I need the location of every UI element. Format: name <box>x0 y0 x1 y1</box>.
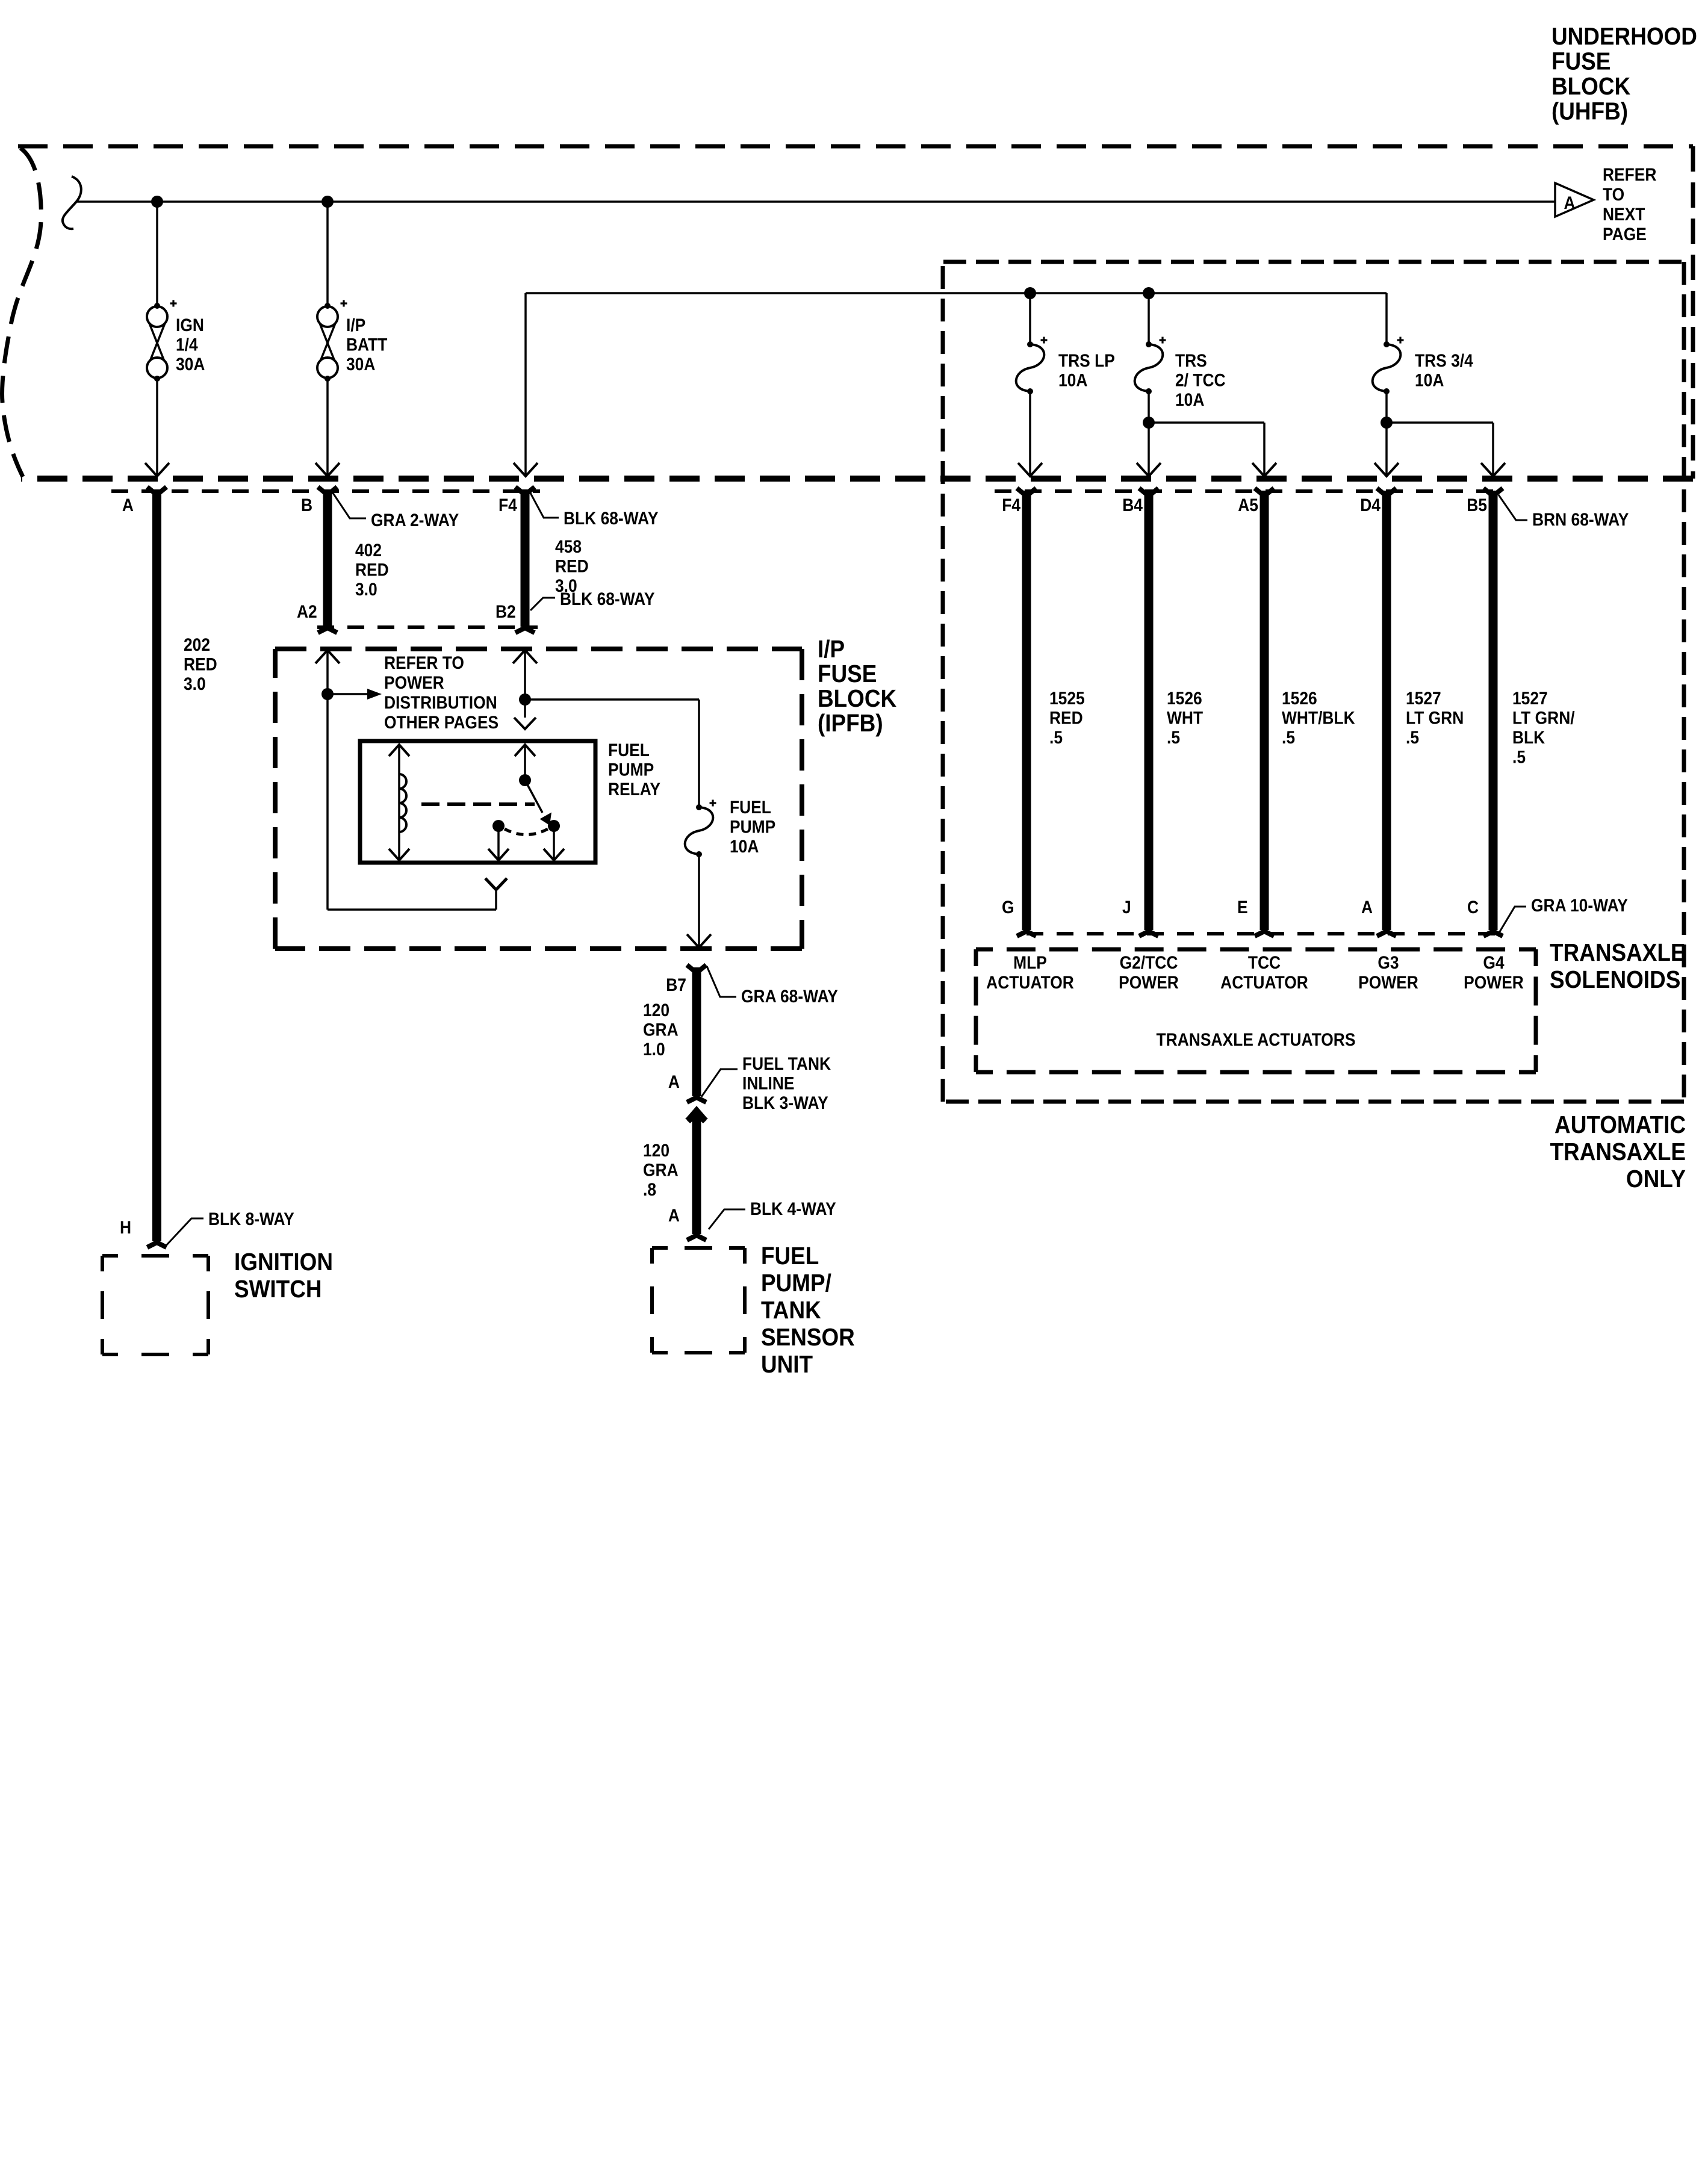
connector strip transaxle F4 B4 A5 D4 B5 <box>995 489 1500 493</box>
wire 1526 WHT .5 <box>1145 491 1154 930</box>
connector pin D4 transaxle <box>1377 488 1396 496</box>
svg-text:FUEL TANK: FUEL TANK <box>742 1053 831 1073</box>
wire 458 RED 3.0 (F4 to B2) <box>521 489 530 627</box>
svg-text:A: A <box>122 494 134 515</box>
svg-text:F4: F4 <box>499 494 517 515</box>
svg-text:.5: .5 <box>1406 727 1419 747</box>
svg-text:ACTUATOR: ACTUATOR <box>986 972 1074 992</box>
svg-text:BRN 68-WAY: BRN 68-WAY <box>1532 509 1629 529</box>
svg-text:I/P: I/P <box>818 636 845 663</box>
svg-text:RELAY: RELAY <box>608 778 660 799</box>
wire B+ bus <box>76 200 1555 203</box>
svg-text:FUSE: FUSE <box>1551 48 1610 75</box>
svg-text:BLK 4-WAY: BLK 4-WAY <box>750 1198 836 1218</box>
relay output chevron <box>485 878 507 890</box>
svg-text:DISTRIBUTION: DISTRIBUTION <box>384 692 497 712</box>
svg-text:BLK 3-WAY: BLK 3-WAY <box>742 1092 828 1112</box>
svg-text:2/ TCC: 2/ TCC <box>1175 370 1226 390</box>
I/P fuse block IPFB dashed box <box>275 647 802 651</box>
wire net 458 drop to fuse TRS 3/4 <box>1385 293 1388 343</box>
svg-text:C: C <box>1467 896 1479 917</box>
transaxle actuators dashed box <box>976 948 993 952</box>
svg-text:1526: 1526 <box>1282 687 1317 708</box>
svg-text:TRS: TRS <box>1175 350 1207 370</box>
relay coil <box>399 774 406 832</box>
svg-text:B5: B5 <box>1467 494 1487 515</box>
connector pin B5 transaxle <box>1483 488 1503 496</box>
relay contact dot NO <box>548 820 560 832</box>
svg-text:SENSOR: SENSOR <box>761 1324 855 1351</box>
svg-text:G: G <box>1002 896 1014 917</box>
svg-text:G3: G3 <box>1378 952 1399 972</box>
svg-text:B7: B7 <box>666 974 686 994</box>
svg-text:FUEL: FUEL <box>608 739 650 760</box>
svg-text:POWER: POWER <box>384 672 444 692</box>
connector pin B2 <box>515 628 535 633</box>
svg-text:FUEL: FUEL <box>761 1242 819 1270</box>
svg-text:GRA: GRA <box>643 1019 679 1040</box>
svg-text:.5: .5 <box>1167 727 1180 747</box>
svg-text:458: 458 <box>555 536 582 556</box>
wire bus to fuse I/P BATT <box>326 202 329 305</box>
fuel pump tank sensor unit dashed box <box>652 1246 668 1250</box>
wire bus to fuse IGN <box>156 202 158 305</box>
svg-text:A: A <box>1564 192 1575 213</box>
ignition switch dashed box <box>102 1254 118 1258</box>
svg-text:GRA 2-WAY: GRA 2-WAY <box>371 509 459 530</box>
connector pin A <box>148 487 167 495</box>
svg-text:OTHER PAGES: OTHER PAGES <box>384 712 499 732</box>
fuse I/P BATT 30A <box>325 303 331 309</box>
svg-text:INLINE: INLINE <box>742 1073 795 1093</box>
leader FUEL TANK INLINE BLK 3-WAY <box>701 1069 738 1097</box>
wire fuse I/P BATT to pin B <box>326 380 329 475</box>
underhood fuse block UHFB top border <box>18 144 1693 149</box>
connector pin B4 transaxle <box>1139 488 1158 496</box>
svg-text:POWER: POWER <box>1358 972 1418 992</box>
off-page connector arrow A <box>1555 183 1594 217</box>
svg-text:UNIT: UNIT <box>761 1351 813 1378</box>
wire fuse TRS LP to pin F4 <box>1029 392 1031 475</box>
relay actuation dashed link <box>421 802 535 806</box>
svg-text:ACTUATOR: ACTUATOR <box>1220 972 1308 992</box>
wire 1526 WHT/BLK .5 <box>1260 491 1269 930</box>
svg-text:3.0: 3.0 <box>355 579 377 599</box>
svg-text:G2/TCC: G2/TCC <box>1120 952 1178 972</box>
svg-text:BLOCK: BLOCK <box>1551 73 1630 100</box>
svg-text:REFER TO: REFER TO <box>384 652 464 672</box>
svg-text:BLK: BLK <box>1512 727 1545 747</box>
connector pin F4 left <box>515 487 535 495</box>
wire net 458 feed: F4 riser <box>524 293 527 475</box>
fuse TRS 2/TCC 10A <box>1146 341 1152 347</box>
svg-text:IGNITION: IGNITION <box>234 1249 333 1276</box>
svg-text:A: A <box>668 1071 680 1091</box>
svg-text:A: A <box>1361 896 1373 917</box>
svg-text:30A: 30A <box>176 353 205 374</box>
wire break squiggle at bus start <box>63 176 81 229</box>
svg-text:1527: 1527 <box>1406 687 1441 708</box>
junction dot IGN tap <box>151 196 163 208</box>
svg-text:B2: B2 <box>495 601 516 621</box>
svg-text:TRANSAXLE: TRANSAXLE <box>1550 1138 1686 1165</box>
svg-text:I/P: I/P <box>346 314 365 335</box>
svg-text:1.0: 1.0 <box>643 1038 665 1059</box>
connector strip IPFB inputs A2 B2 <box>317 625 538 629</box>
svg-text:RED: RED <box>355 559 389 580</box>
wire 1527 LT GRN/BLK .5 <box>1489 491 1498 930</box>
wire 120 GRA .8 <box>692 1117 701 1234</box>
relay switch blade <box>525 780 542 813</box>
svg-text:H: H <box>120 1217 131 1237</box>
wire branch to pin B5 <box>1387 421 1493 424</box>
svg-text:(UHFB): (UHFB) <box>1551 98 1628 125</box>
leader BRN 68-WAY <box>1499 495 1527 520</box>
svg-text:J: J <box>1122 896 1131 917</box>
fuse FUEL PUMP 10A <box>696 804 702 810</box>
relay contact dashed arc <box>505 829 548 835</box>
svg-text:BLK 8-WAY: BLK 8-WAY <box>208 1208 294 1229</box>
svg-text:GRA 68-WAY: GRA 68-WAY <box>741 985 838 1006</box>
svg-text:10A: 10A <box>730 836 759 856</box>
fuse TRS 3/4 10A <box>1384 341 1390 347</box>
svg-text:PUMP: PUMP <box>608 759 654 780</box>
wire IPFB pin A2 riser <box>326 650 329 910</box>
wire relay output loop <box>328 908 496 911</box>
svg-text:E: E <box>1237 896 1248 917</box>
svg-text:SOLENOIDS: SOLENOIDS <box>1550 966 1680 993</box>
junction dot TRS LP tap <box>1024 287 1036 299</box>
svg-text:PUMP/: PUMP/ <box>761 1270 831 1297</box>
svg-text:TANK: TANK <box>761 1297 821 1324</box>
arrow to power distribution <box>328 693 368 695</box>
svg-text:FUSE: FUSE <box>818 660 877 687</box>
svg-text:PUMP: PUMP <box>730 816 775 837</box>
svg-text:SWITCH: SWITCH <box>234 1276 322 1303</box>
svg-text:POWER: POWER <box>1464 972 1524 992</box>
svg-text:TRANSAXLE ACTUATORS: TRANSAXLE ACTUATORS <box>1157 1029 1356 1049</box>
relay box FUEL PUMP RELAY <box>360 741 595 863</box>
svg-text:TCC: TCC <box>1248 952 1281 972</box>
svg-text:NEXT: NEXT <box>1603 203 1645 224</box>
fuse IGN 1/4 30A <box>154 303 160 309</box>
svg-text:TO: TO <box>1603 184 1624 204</box>
wire 120 GRA 1.0 <box>692 967 701 1096</box>
svg-text:GRA: GRA <box>643 1159 679 1180</box>
svg-text:FUEL: FUEL <box>730 796 771 817</box>
svg-text:.5: .5 <box>1512 746 1526 767</box>
svg-text:BATT: BATT <box>346 334 387 355</box>
connector pin A5 transaxle <box>1255 488 1274 496</box>
wire tap to fuse TRS LP <box>1029 293 1031 343</box>
relay switch pivot dot <box>519 774 531 786</box>
svg-text:A5: A5 <box>1238 494 1258 515</box>
wire tap to fuse TRS 2/TCC <box>1148 293 1150 343</box>
leader BLK 68-WAY F4 <box>530 493 559 518</box>
leader GRA 68-WAY <box>707 966 736 997</box>
svg-text:BLOCK: BLOCK <box>818 685 896 712</box>
svg-text:WHT/BLK: WHT/BLK <box>1282 707 1355 728</box>
svg-text:120: 120 <box>643 1140 669 1160</box>
leader GRA 10-WAY <box>1499 907 1526 934</box>
svg-text:30A: 30A <box>346 353 375 374</box>
connector pin A2 <box>318 628 337 633</box>
junction dot A2 distribution <box>321 688 334 700</box>
svg-text:.8: .8 <box>643 1179 656 1199</box>
svg-text:1525: 1525 <box>1049 687 1085 708</box>
svg-text:402: 402 <box>355 539 382 560</box>
connector pin B <box>318 487 337 495</box>
leader BLK 8-WAY <box>166 1218 203 1246</box>
wire 202 RED 3.0 (A to ignition switch) <box>152 489 161 1241</box>
svg-text:REFER: REFER <box>1603 164 1656 184</box>
junction dot I/P BATT tap <box>321 196 334 208</box>
connector strip transaxle solenoids G J E A C <box>1027 932 1499 935</box>
svg-text:UNDERHOOD: UNDERHOOD <box>1551 23 1697 50</box>
svg-text:.5: .5 <box>1282 727 1295 747</box>
svg-text:1/4: 1/4 <box>176 334 198 355</box>
wire fuse to pin B7 <box>698 854 700 946</box>
wire fuse TRS 3/4 to pin D4 <box>1385 392 1388 475</box>
junction dot TRS 3/4 branch <box>1381 417 1393 429</box>
connector chevron into relay <box>514 718 536 729</box>
svg-text:1526: 1526 <box>1167 687 1202 708</box>
junction dot TRS 2/TCC tap <box>1143 287 1155 299</box>
pin H ignition switch <box>148 1242 167 1247</box>
UHFB right border <box>1691 146 1695 479</box>
svg-text:10A: 10A <box>1415 370 1444 390</box>
relay switch common pin <box>524 744 526 780</box>
svg-text:1527: 1527 <box>1512 687 1548 708</box>
wire B2 to fuel pump fuse <box>525 698 699 701</box>
wire 1527 LT GRN .5 <box>1382 491 1391 930</box>
svg-text:10A: 10A <box>1175 389 1204 409</box>
relay coil pin <box>398 744 400 861</box>
automatic transaxle only dashed box <box>943 260 1684 264</box>
svg-text:BLK 68-WAY: BLK 68-WAY <box>564 507 659 528</box>
svg-text:BLK 68-WAY: BLK 68-WAY <box>560 588 655 609</box>
svg-text:MLP: MLP <box>1013 952 1047 972</box>
svg-text:202: 202 <box>184 634 210 654</box>
junction dot B2 feed <box>519 693 531 706</box>
leader GRA 2-WAY <box>333 493 366 518</box>
svg-text:LT GRN/: LT GRN/ <box>1512 707 1575 728</box>
svg-text:PAGE: PAGE <box>1603 223 1647 244</box>
svg-text:AUTOMATIC: AUTOMATIC <box>1555 1111 1686 1138</box>
svg-text:F4: F4 <box>1002 494 1020 515</box>
svg-text:POWER: POWER <box>1119 972 1179 992</box>
svg-text:D4: D4 <box>1360 494 1381 515</box>
svg-text:A2: A2 <box>297 601 317 621</box>
svg-text:RED: RED <box>1049 707 1083 728</box>
connector strip UHFB outputs A B F4 <box>111 489 540 493</box>
svg-text:TRANSAXLE: TRANSAXLE <box>1550 939 1685 966</box>
svg-text:10A: 10A <box>1058 370 1087 390</box>
relay contact dot NC <box>492 820 505 832</box>
svg-text:B4: B4 <box>1122 494 1143 515</box>
wire IPFB pin B2 riser <box>524 650 526 718</box>
leader BLK 4-WAY <box>709 1209 745 1229</box>
inline connector male arrow <box>685 1106 708 1119</box>
svg-text:WHT: WHT <box>1167 707 1203 728</box>
svg-text:TRS 3/4: TRS 3/4 <box>1415 350 1473 370</box>
svg-text:GRA 10-WAY: GRA 10-WAY <box>1531 895 1628 915</box>
junction dot TRS 2/TCC branch <box>1143 417 1155 429</box>
svg-text:IGN: IGN <box>176 314 204 335</box>
svg-text:ONLY: ONLY <box>1626 1165 1686 1193</box>
leader BLK 68-WAY B2 <box>530 598 555 610</box>
wire 1525 RED .5 <box>1022 491 1031 930</box>
svg-text:A: A <box>668 1205 680 1225</box>
fuse TRS LP 10A <box>1027 341 1033 347</box>
wire fuse IGN to pin A <box>156 380 158 475</box>
svg-text:RED: RED <box>555 556 589 576</box>
svg-text:3.0: 3.0 <box>184 673 206 693</box>
svg-text:G4: G4 <box>1483 952 1504 972</box>
svg-text:B: B <box>301 494 312 515</box>
connector pin B7 <box>687 965 706 973</box>
wire 402 RED 3.0 (B to A2) <box>323 489 332 627</box>
svg-text:120: 120 <box>643 999 669 1020</box>
UHFB bottom border <box>21 476 1693 482</box>
svg-text:LT GRN: LT GRN <box>1406 707 1464 728</box>
svg-text:RED: RED <box>184 654 217 674</box>
connector pin F4 transaxle <box>1017 488 1036 496</box>
wire fuse TRS 2/TCC to pin B4 <box>1148 392 1150 475</box>
wire net 458 feed horizontal <box>526 292 1387 294</box>
svg-text:TRS LP: TRS LP <box>1058 350 1115 370</box>
UHFB left curved border <box>2 148 42 477</box>
svg-text:.5: .5 <box>1049 727 1063 747</box>
svg-text:(IPFB): (IPFB) <box>818 710 883 737</box>
wire branch to pin A5 <box>1149 421 1264 424</box>
